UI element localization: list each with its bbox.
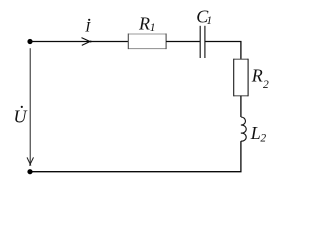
svg-text:L: L xyxy=(250,123,261,143)
label R2 xyxy=(251,66,269,92)
node: top-left terminal dot xyxy=(27,39,32,44)
svg-text:R: R xyxy=(138,14,150,34)
wire: top horizontal from left terminal to R1 xyxy=(30,41,128,43)
node: bottom-left terminal dot xyxy=(27,169,32,174)
wire: R2 to L2 xyxy=(240,96,242,117)
svg-text:I: I xyxy=(84,20,91,36)
current arrow on top wire xyxy=(82,38,92,46)
wire: R1 to C1 xyxy=(166,41,200,43)
svg-text:1: 1 xyxy=(150,22,156,34)
wire: C1 to top-right corner and down to R2 xyxy=(205,42,241,60)
label I (current) with dot above xyxy=(84,19,91,36)
svg-text:2: 2 xyxy=(263,79,269,91)
inductor L2 xyxy=(241,117,246,141)
svg-text:1: 1 xyxy=(206,15,212,27)
svg-text:2: 2 xyxy=(260,133,266,145)
resistor R1 xyxy=(128,34,166,50)
voltage arrow U (left side, pointing down) xyxy=(27,48,34,165)
label U (voltage) with dot above xyxy=(14,106,28,127)
svg-text:U: U xyxy=(14,106,28,126)
resistor R2 xyxy=(234,59,248,97)
label C1 xyxy=(196,6,212,27)
wire: L2 down to bottom-right corner and left to bottom terminal xyxy=(30,141,241,172)
capacitor C1 xyxy=(200,26,205,58)
label L2 xyxy=(250,123,267,145)
svg-text:R: R xyxy=(251,66,263,86)
label R1 xyxy=(138,14,156,34)
